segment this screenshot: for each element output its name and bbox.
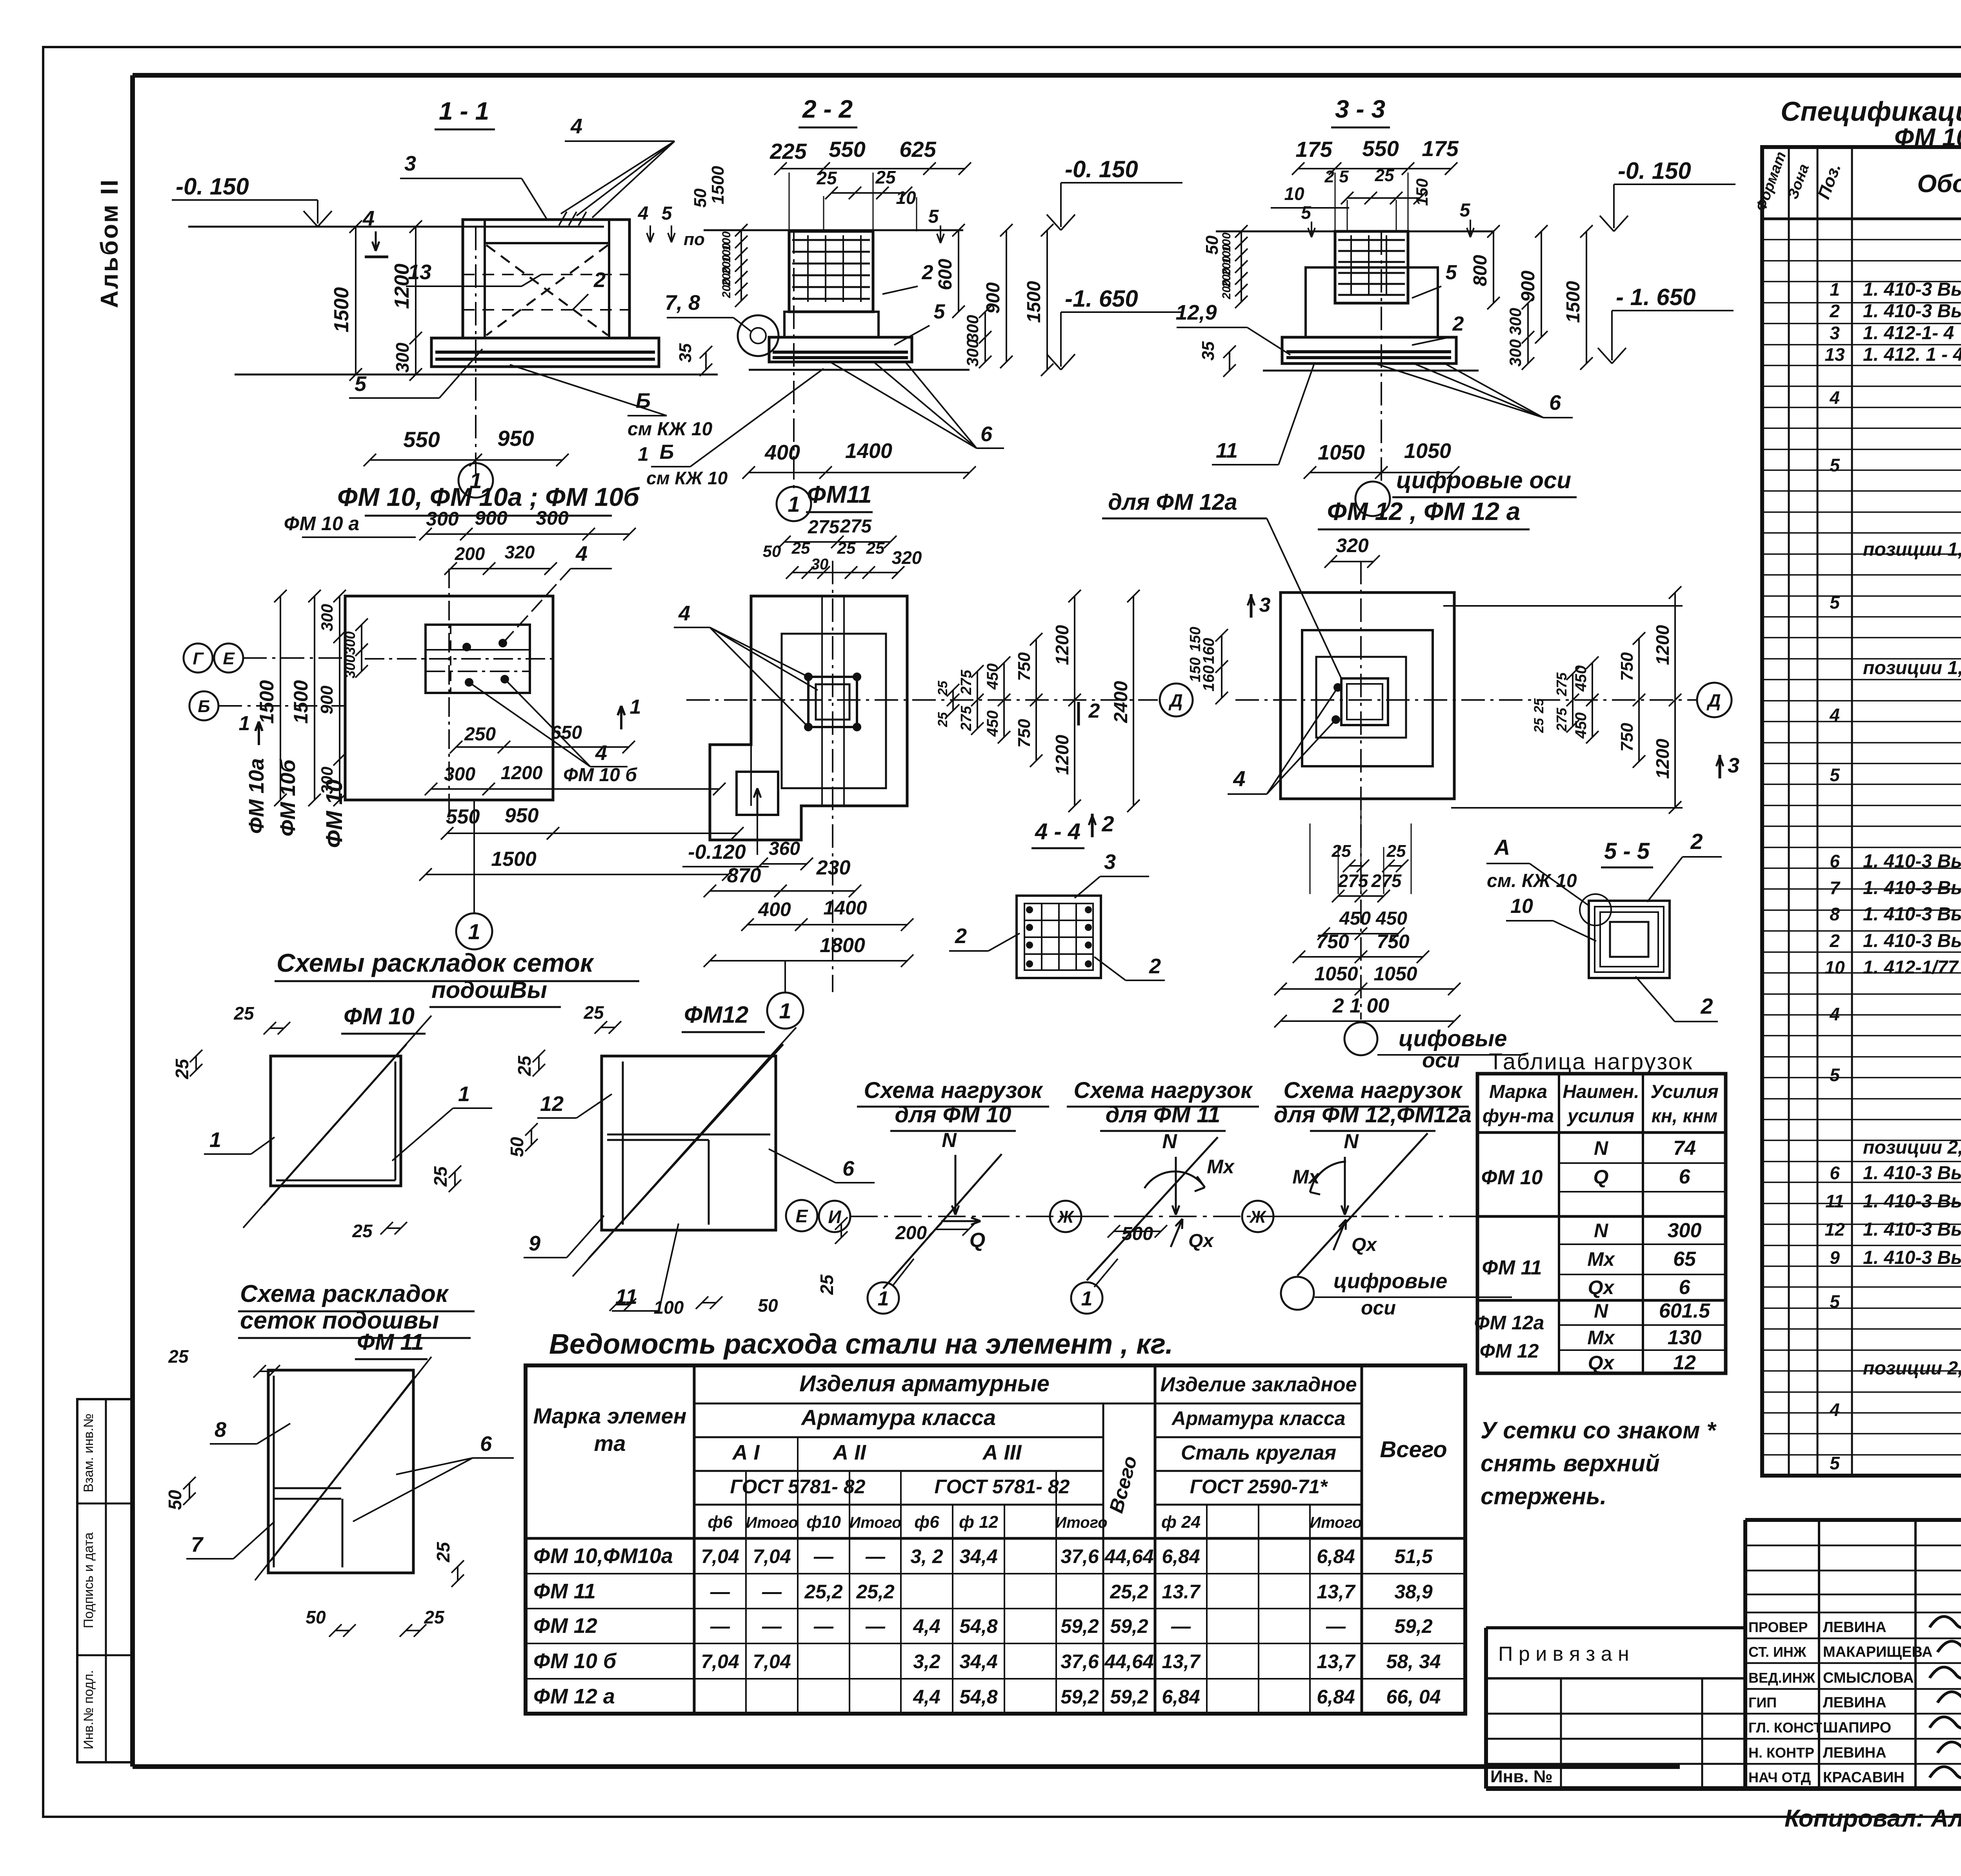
svg-text:550: 550 [403,427,440,452]
svg-text:50: 50 [763,542,781,560]
svg-text:300: 300 [536,507,569,529]
svg-text:12: 12 [1673,1351,1696,1374]
svg-text:7,04: 7,04 [753,1651,791,1672]
svg-text:1. 410-3 Вып.1: 1. 410-3 Вып.1 [1863,279,1961,300]
svg-text:КРАСАВИН: КРАСАВИН [1823,1769,1905,1786]
svg-text:2: 2 [1700,994,1713,1018]
svg-text:—: — [813,1545,834,1567]
svg-text:12,9: 12,9 [1175,301,1217,324]
svg-text:13: 13 [408,260,431,284]
svg-text:1050: 1050 [1318,441,1365,464]
svg-text:6: 6 [980,422,993,446]
svg-text:ГОСТ 5781- 82: ГОСТ 5781- 82 [730,1476,866,1498]
svg-text:1: 1 [1830,279,1840,300]
svg-text:750: 750 [1316,931,1349,953]
svg-text:750: 750 [1377,931,1410,953]
svg-text:ШАПИРО: ШАПИРО [1823,1720,1891,1736]
svg-text:900: 900 [983,282,1004,314]
svg-text:2: 2 [593,268,606,292]
svg-text:34,4: 34,4 [959,1545,997,1567]
svg-text:1: 1 [468,919,480,944]
svg-text:6: 6 [842,1157,855,1180]
svg-text:7,04: 7,04 [701,1545,739,1567]
svg-text:Всего: Всего [1380,1437,1447,1462]
svg-text:10: 10 [1284,184,1304,204]
svg-text:Мх: Мх [1207,1156,1235,1178]
svg-text:ф 24: ф 24 [1161,1512,1201,1532]
svg-text:275: 275 [958,669,975,695]
svg-text:35: 35 [676,343,695,362]
svg-text:25: 25 [1532,698,1546,714]
svg-text:550: 550 [829,137,865,162]
svg-text:6,84: 6,84 [1317,1686,1355,1708]
svg-text:44,64: 44,64 [1104,1545,1153,1567]
svg-text:1: 1 [788,492,800,516]
svg-text:50: 50 [507,1137,527,1157]
svg-text:300: 300 [318,604,336,631]
svg-text:Q: Q [1594,1166,1609,1188]
svg-text:2 5: 2 5 [1324,167,1349,186]
svg-text:25: 25 [837,539,856,557]
svg-text:ФМ 10: ФМ 10 [344,1003,415,1029]
svg-text:—: — [1171,1615,1191,1637]
svg-text:5: 5 [1460,200,1471,221]
svg-text:1200: 1200 [1652,738,1673,779]
svg-text:10: 10 [1510,895,1533,918]
svg-text:5: 5 [1301,202,1312,223]
svg-text:2: 2 [922,261,933,284]
svg-text:ГОСТ 5781- 82: ГОСТ 5781- 82 [935,1476,1070,1498]
svg-text:300: 300 [963,315,982,342]
svg-text:1500: 1500 [491,848,537,871]
svg-text:450: 450 [984,711,1001,737]
svg-text:ГОСТ 2590-71*: ГОСТ 2590-71* [1190,1476,1328,1498]
svg-text:2: 2 [1149,954,1161,978]
svg-text:625: 625 [899,137,936,162]
svg-text:6: 6 [1830,1163,1840,1183]
svg-text:—: — [865,1615,886,1637]
svg-text:Марка: Марка [1489,1082,1547,1102]
svg-text:ФМ 11: ФМ 11 [1482,1256,1542,1279]
svg-text:Н. КОНТР: Н. КОНТР [1748,1745,1814,1761]
svg-text:1. 412-1/77 Вып. 3: 1. 412-1/77 Вып. 3 [1863,957,1961,978]
svg-text:Qх: Qх [1352,1234,1377,1255]
svg-text:А: А [1493,835,1510,860]
svg-text:25: 25 [233,1003,255,1023]
svg-text:7,04: 7,04 [701,1651,739,1672]
svg-text:фун-та: фун-та [1483,1106,1554,1127]
svg-text:ФМ 12 , ФМ 12 а: ФМ 12 , ФМ 12 а [1327,497,1521,525]
svg-text:25,2: 25,2 [856,1581,895,1603]
svg-text:4: 4 [1233,766,1245,791]
svg-text:НАЧ ОТД: НАЧ ОТД [1748,1769,1811,1785]
svg-text:ЛЕВИНА: ЛЕВИНА [1823,1745,1886,1761]
svg-text:1: 1 [638,443,649,465]
svg-text:Схема нагрузок: Схема нагрузок [1073,1078,1253,1103]
svg-text:У сетки со знаком *: У сетки со знаком * [1481,1417,1717,1443]
svg-text:позиции 2, 10 см.: позиции 2, 10 см. [1863,1137,1961,1158]
svg-text:300: 300 [963,339,982,367]
svg-text:25: 25 [935,680,950,696]
svg-text:10: 10 [1825,957,1845,978]
svg-text:Взам. инв.№: Взам. инв.№ [81,1413,96,1492]
svg-text:Спецификация монолитных фу: Спецификация монолитных фундаментов [1781,96,1961,127]
svg-text:1050: 1050 [1404,439,1451,463]
svg-text:400: 400 [758,898,791,920]
svg-text:1: 1 [209,1128,221,1152]
svg-text:Схема нагрузок: Схема нагрузок [1283,1078,1463,1103]
svg-text:200: 200 [895,1223,927,1243]
svg-text:Схемы раскладок сеток: Схемы раскладок сеток [277,948,595,977]
svg-text:ФМ 12: ФМ 12 [533,1614,597,1638]
svg-text:750: 750 [1617,652,1637,681]
svg-text:1200: 1200 [1052,734,1072,775]
svg-text:Ведомость расхода стали на: Ведомость расхода стали на элемент , кг. [549,1329,1173,1360]
svg-text:МАКАРИЩЕВА: МАКАРИЩЕВА [1823,1644,1932,1660]
svg-text:37,6: 37,6 [1061,1545,1099,1567]
svg-text:800: 800 [1470,255,1491,286]
svg-text:59,2: 59,2 [1394,1615,1433,1637]
svg-text:250: 250 [464,724,496,745]
svg-text:550: 550 [1362,136,1399,161]
svg-text:Обозначение: Обозначение [1917,169,1961,198]
svg-text:400: 400 [764,441,800,464]
svg-text:11: 11 [1825,1191,1844,1211]
svg-text:750: 750 [1617,723,1637,752]
svg-text:ФМ 10,ФМ10а: ФМ 10,ФМ10а [533,1544,673,1568]
svg-text:для ФМ 11: для ФМ 11 [1106,1102,1221,1127]
svg-text:усилия: усилия [1567,1106,1634,1127]
svg-text:50: 50 [306,1607,326,1627]
svg-text:320: 320 [892,547,922,568]
svg-text:Г: Г [193,649,204,668]
svg-text:2: 2 [955,924,967,948]
svg-text:1200: 1200 [1052,625,1072,665]
svg-text:ФМ 10 б: ФМ 10 б [533,1649,617,1673]
svg-text:ПРОВЕР: ПРОВЕР [1748,1619,1808,1635]
svg-text:снять верхний: снять верхний [1481,1450,1660,1476]
svg-text:5: 5 [1830,1291,1840,1312]
svg-text:3 - 3: 3 - 3 [1335,95,1385,123]
svg-text:ФМ 10: ФМ 10 [1481,1166,1543,1189]
svg-text:200: 200 [720,278,733,298]
svg-text:Таблица нагрузок: Таблица нагрузок [1489,1049,1693,1074]
svg-text:1500: 1500 [256,680,278,723]
svg-text:950: 950 [497,426,534,451]
svg-text:230: 230 [816,856,851,879]
svg-text:3: 3 [1104,850,1116,874]
svg-text:Подпись и дата: Подпись и дата [81,1532,96,1629]
svg-text:Сталь круглая: Сталь круглая [1181,1442,1336,1464]
svg-text:50: 50 [758,1295,778,1316]
svg-text:25: 25 [172,1058,192,1080]
svg-text:2 1 00: 2 1 00 [1332,994,1390,1017]
svg-text:130: 130 [1668,1326,1702,1349]
svg-text:2: 2 [1829,301,1840,321]
svg-text:1500: 1500 [1563,281,1584,323]
svg-text:ФМ 11: ФМ 11 [357,1329,424,1355]
svg-text:N: N [1594,1220,1608,1242]
svg-text:3, 2: 3, 2 [910,1545,943,1567]
svg-text:позиции 1,2,3,13: позиции 1,2,3,13 [1863,539,1961,560]
svg-text:1500: 1500 [330,287,353,333]
svg-text:320: 320 [1336,534,1369,556]
svg-text:900: 900 [1518,271,1539,302]
svg-text:1. 410-3 Вып.1: 1. 410-3 Вып.1 [1863,1247,1961,1268]
svg-text:35: 35 [1199,341,1218,360]
svg-text:4: 4 [1829,1400,1840,1420]
svg-text:25: 25 [935,712,950,727]
svg-text:25: 25 [514,1055,535,1076]
svg-text:ФМ11: ФМ11 [807,481,871,508]
svg-text:4,4: 4,4 [913,1615,940,1637]
svg-text:275: 275 [1554,672,1570,696]
svg-text:Мх: Мх [1587,1248,1615,1270]
svg-text:1. 410-3 Вып. 1: 1. 410-3 Вып. 1 [1863,851,1961,872]
svg-text:5: 5 [1830,1065,1840,1085]
svg-text:13.7: 13.7 [1162,1581,1201,1603]
svg-text:ФМ 12а: ФМ 12а [1474,1312,1544,1334]
svg-text:4: 4 [1829,387,1840,408]
svg-text:4: 4 [595,741,607,765]
svg-text:225: 225 [769,139,807,164]
svg-text:25: 25 [433,1542,453,1563]
svg-text:2: 2 [1088,700,1100,722]
svg-text:450: 450 [1375,908,1407,929]
svg-text:300: 300 [1668,1219,1702,1242]
svg-text:1500: 1500 [1024,281,1044,323]
svg-text:5: 5 [1830,592,1840,613]
svg-text:Д: Д [1706,690,1721,711]
svg-text:25: 25 [816,168,837,188]
svg-text:2: 2 [1829,931,1840,951]
svg-text:ф6: ф6 [914,1512,939,1532]
svg-text:1400: 1400 [823,897,867,919]
svg-text:34,4: 34,4 [959,1651,997,1672]
svg-text:6: 6 [480,1432,492,1456]
svg-text:ФМ 10: ФМ 10 [322,780,347,848]
svg-text:-0. 150: -0. 150 [1618,158,1691,184]
svg-text:9: 9 [529,1232,540,1255]
svg-text:2: 2 [1690,829,1703,854]
svg-text:СМЫСЛОВА: СМЫСЛОВА [1823,1670,1914,1686]
svg-text:—: — [710,1581,730,1603]
svg-text:54,8: 54,8 [959,1686,998,1708]
svg-text:Qх: Qх [1588,1352,1615,1374]
svg-text:300: 300 [342,631,358,655]
svg-text:450: 450 [1572,713,1590,739]
svg-text:ГИП: ГИП [1748,1694,1777,1711]
svg-text:300: 300 [426,508,459,530]
svg-text:5: 5 [928,206,939,227]
svg-text:3: 3 [1728,754,1739,777]
svg-text:3,2: 3,2 [913,1651,940,1672]
svg-text:59,2: 59,2 [1110,1686,1148,1708]
svg-text:58, 34: 58, 34 [1386,1651,1441,1672]
svg-text:25: 25 [875,167,896,187]
svg-text:1. 410-3 Вып.1: 1. 410-3 Вып.1 [1863,301,1961,322]
svg-text:5: 5 [1446,261,1457,284]
svg-text:1: 1 [1081,1287,1093,1310]
svg-text:13,7: 13,7 [1317,1651,1356,1672]
svg-text:N: N [1594,1137,1608,1159]
svg-text:50: 50 [691,188,710,207]
svg-text:ЛЕВИНА: ЛЕВИНА [1823,1619,1886,1636]
svg-text:900: 900 [475,507,508,529]
svg-text:5: 5 [1830,455,1840,475]
svg-text:цифровые оси: цифровые оси [1396,467,1571,493]
svg-text:25: 25 [866,539,885,557]
svg-text:Е: Е [796,1206,808,1226]
svg-text:ФМ 11: ФМ 11 [533,1580,596,1603]
svg-text:300: 300 [1506,308,1524,335]
svg-text:ВЕД.ИНЖ: ВЕД.ИНЖ [1748,1670,1815,1686]
svg-text:4: 4 [362,207,375,230]
svg-text:оси: оси [1361,1297,1396,1319]
svg-text:4: 4 [678,602,690,625]
svg-text:300: 300 [342,655,358,678]
svg-text:1050: 1050 [1314,963,1358,985]
svg-text:Мх: Мх [1587,1327,1615,1349]
svg-text:Схема нагрузок: Схема нагрузок [864,1078,1043,1103]
svg-text:1200: 1200 [501,763,543,783]
svg-text:ФМ 12 а: ФМ 12 а [533,1685,615,1708]
svg-text:5: 5 [1830,765,1840,785]
svg-text:подошВы: подошВы [431,977,547,1003]
svg-text:2400: 2400 [1111,681,1131,723]
svg-text:N: N [1594,1300,1608,1322]
svg-text:11: 11 [1216,439,1238,462]
svg-text:-1. 650: -1. 650 [1065,285,1138,312]
svg-text:950: 950 [505,804,539,827]
svg-text:6,84: 6,84 [1162,1686,1200,1708]
svg-text:Е: Е [223,649,235,668]
svg-text:25: 25 [583,1002,604,1023]
svg-text:6,84: 6,84 [1317,1545,1355,1567]
svg-text:750: 750 [1015,719,1034,748]
svg-text:59,2: 59,2 [1061,1615,1099,1637]
svg-text:кн, кнм: кн, кнм [1652,1106,1718,1127]
svg-text:7: 7 [191,1533,204,1556]
svg-text:Qх: Qх [1188,1231,1214,1251]
svg-text:Альбом II: Альбом II [96,178,123,308]
svg-text:ФМ 12: ФМ 12 [1480,1340,1539,1362]
svg-text:7, 8: 7, 8 [665,291,700,314]
svg-text:44,64: 44,64 [1104,1651,1153,1672]
svg-text:Инв.№ подл.: Инв.№ подл. [81,1670,96,1749]
svg-text:ФМ 10 а: ФМ 10 а [284,513,360,534]
svg-text:4,4: 4,4 [913,1686,940,1708]
svg-text:25: 25 [168,1346,189,1367]
svg-text:Изделия арматурные: Изделия арматурные [799,1371,1050,1396]
svg-text:—: — [813,1615,834,1637]
svg-text:позиции 2, 10, 6, 11: позиции 2, 10, 6, 11 [1863,1358,1961,1379]
svg-text:37,6: 37,6 [1061,1651,1099,1672]
svg-text:1. 412-1- 4: 1. 412-1- 4 [1863,323,1954,344]
svg-text:4: 4 [570,115,582,138]
svg-text:275: 275 [808,517,840,538]
svg-text:Изделие закладное: Изделие закладное [1160,1373,1357,1396]
svg-text:13: 13 [1825,344,1845,365]
svg-text:—: — [762,1615,782,1637]
svg-text:13,7: 13,7 [1317,1581,1356,1603]
svg-text:2: 2 [1452,313,1464,335]
svg-text:450: 450 [1339,908,1371,929]
svg-text:цифовые: цифовые [1399,1026,1507,1051]
svg-text:1050: 1050 [1373,963,1417,985]
svg-text:25: 25 [1532,718,1546,733]
svg-text:65: 65 [1673,1248,1696,1271]
svg-text:ГЛ. КОНСТ: ГЛ. КОНСТ [1748,1720,1822,1736]
svg-text:Итого: Итого [1055,1514,1107,1531]
svg-text:Итого: Итого [849,1514,901,1531]
svg-text:1 - 1: 1 - 1 [439,97,489,125]
svg-text:1: 1 [458,1082,470,1106]
svg-text:Мх: Мх [1292,1166,1321,1188]
svg-text:А II: А II [832,1441,866,1464]
svg-text:Б: Б [660,441,674,464]
svg-text:5: 5 [1830,1453,1840,1473]
svg-text:5: 5 [662,203,673,224]
svg-text:стержень.: стержень. [1481,1483,1606,1509]
svg-text:51,5: 51,5 [1394,1545,1433,1567]
svg-text:750: 750 [1015,652,1034,681]
svg-text:12: 12 [1825,1219,1845,1240]
svg-text:3: 3 [404,152,416,175]
svg-text:5: 5 [934,300,946,323]
svg-text:Б: Б [198,697,210,716]
svg-text:300: 300 [392,342,413,373]
svg-text:25: 25 [424,1607,445,1627]
svg-text:1: 1 [779,998,791,1023]
svg-text:175: 175 [1295,137,1332,162]
svg-text:И: И [828,1207,841,1227]
svg-text:9: 9 [1830,1247,1840,1268]
svg-text:N: N [942,1129,957,1152]
svg-text:59,2: 59,2 [1110,1615,1148,1637]
svg-text:4: 4 [575,542,588,565]
svg-text:275: 275 [840,516,872,537]
svg-text:38,9: 38,9 [1394,1581,1433,1603]
svg-text:Qх: Qх [1588,1276,1615,1298]
svg-text:СТ. ИНЖ: СТ. ИНЖ [1748,1644,1806,1660]
svg-text:П р и в я з а н: П р и в я з а н [1498,1643,1629,1665]
svg-text:650: 650 [551,722,582,743]
svg-text:для ФМ 10: для ФМ 10 [895,1102,1011,1127]
svg-text:200: 200 [455,544,485,564]
svg-text:5 - 5: 5 - 5 [1604,838,1650,864]
svg-text:600: 600 [935,259,956,290]
svg-text:цифровые: цифровые [1333,1269,1447,1293]
svg-text:7,04: 7,04 [753,1545,791,1567]
svg-text:25: 25 [1332,842,1351,861]
svg-text:150: 150 [1187,627,1204,651]
svg-text:позиции 1,2,3, 13: позиции 1,2,3, 13 [1863,658,1961,678]
svg-text:Наимен.: Наимен. [1563,1082,1639,1102]
svg-text:175: 175 [1422,136,1459,161]
svg-text:1200: 1200 [1652,625,1673,665]
svg-text:2: 2 [1101,811,1114,836]
svg-text:N: N [1162,1130,1177,1153]
svg-text:ф 12: ф 12 [959,1512,999,1532]
svg-text:—: — [762,1581,782,1603]
svg-text:275: 275 [958,705,975,731]
svg-text:1. 410-3 Вып. 1: 1. 410-3 Вып. 1 [1863,931,1961,951]
svg-text:360: 360 [769,838,800,859]
svg-text:см КЖ 10: см КЖ 10 [646,468,728,488]
svg-text:2 - 2: 2 - 2 [802,95,853,123]
svg-text:100: 100 [654,1297,684,1318]
